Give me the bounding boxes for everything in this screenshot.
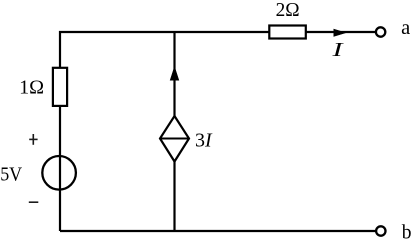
svg-text:1Ω: 1Ω — [19, 77, 44, 98]
svg-text:a: a — [401, 17, 410, 39]
svg-text:3I: 3I — [195, 129, 213, 151]
svg-text:b: b — [402, 223, 412, 244]
svg-text:5V: 5V — [0, 163, 22, 185]
svg-text:I: I — [331, 39, 344, 61]
svg-text:2Ω: 2Ω — [276, 0, 300, 21]
